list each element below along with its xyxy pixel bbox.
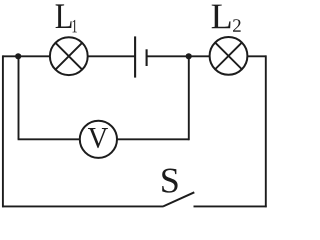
label S switch (162, 168, 177, 192)
wire top left segment (3, 55, 135, 57)
battery B1 long plate (+) (134, 36, 136, 77)
wire voltmeter branch left vertical (18, 56, 20, 139)
label L2 subscript 2 (233, 19, 241, 32)
wire bottom left segment (2, 205, 163, 207)
lamp L1 cross (55, 43, 82, 70)
label L1 subscript 1 (72, 20, 76, 33)
wire bottom right segment (194, 205, 267, 207)
battery B1 short plate (-) (146, 49, 148, 66)
wire top right segment (147, 55, 266, 57)
label L1 letter L (56, 4, 72, 28)
node junction dot left (15, 53, 21, 59)
switch S blade (163, 192, 194, 206)
lamp L2 cross (215, 43, 242, 70)
wire left vertical (2, 55, 4, 207)
wire voltmeter branch horizontal (18, 138, 189, 140)
lamp L2 circle (210, 37, 248, 75)
node junction dot right (186, 53, 192, 59)
voltmeter U1 letter V (88, 128, 108, 148)
wire voltmeter branch right vertical (188, 56, 190, 140)
label L2 letter L (212, 5, 231, 29)
wire right vertical (265, 55, 267, 207)
lamp L1 circle (50, 37, 88, 75)
voltmeter U1 circle (80, 121, 117, 158)
